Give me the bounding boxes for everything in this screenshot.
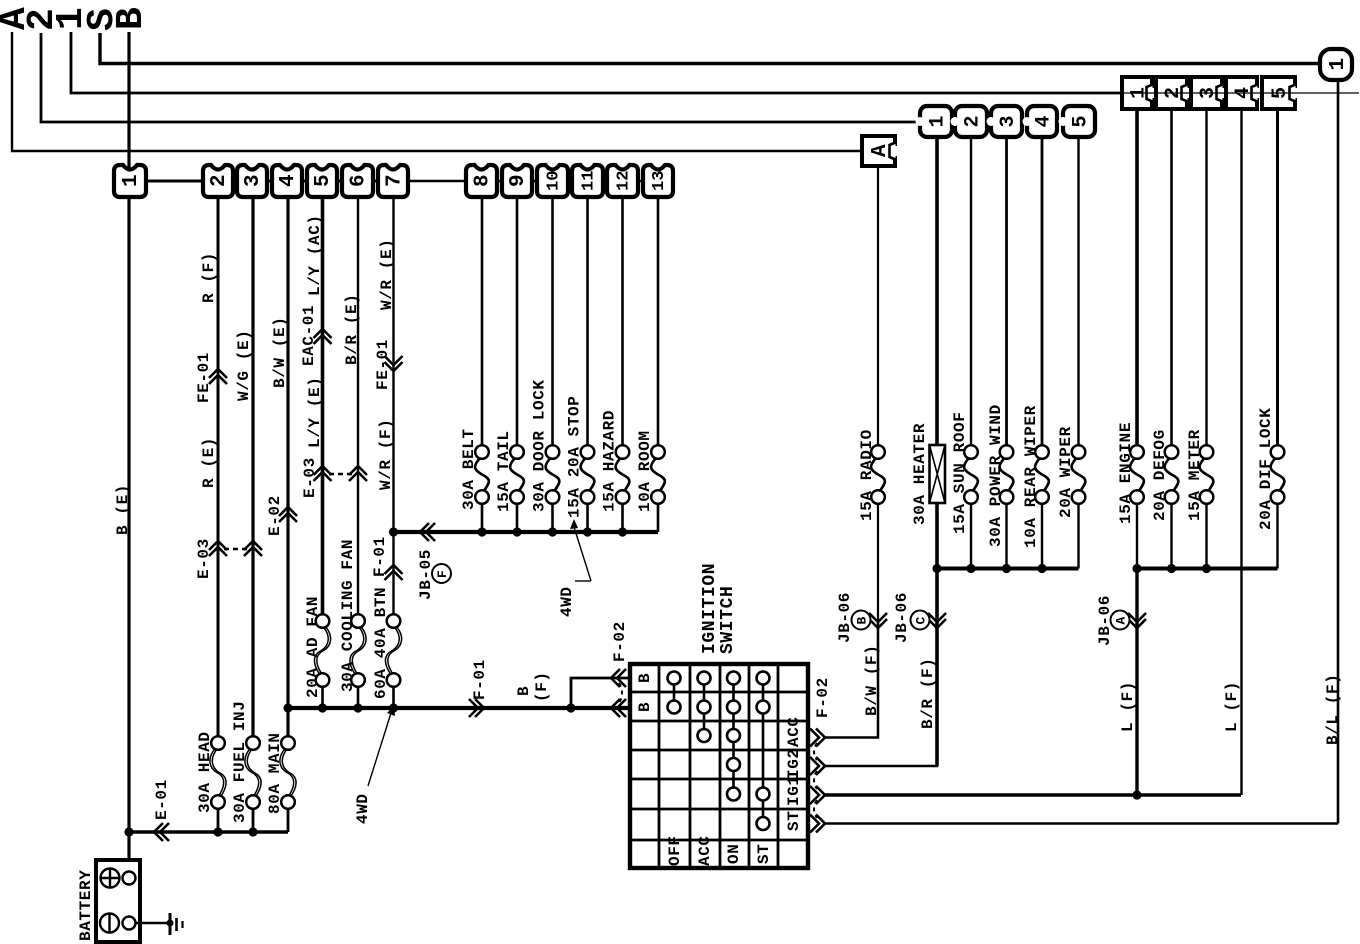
wire from pin 5 (L/Y) (321, 197, 325, 615)
fuse 10A REAR WIPER (1035, 457, 1049, 492)
wire from pin 6 (B/R) (357, 197, 359, 615)
svg-text:4WD: 4WD (354, 793, 372, 824)
svg-text:20A DIF LOCK: 20A DIF LOCK (1257, 408, 1275, 530)
wire from A to connector A (12, 32, 862, 151)
junction dots IG1 bus (1132, 564, 1141, 573)
wire stubs ENGINE group fuses to IG1 bus (1136, 503, 1138, 569)
wire link connector7-connector8 (408, 180, 466, 182)
connector JB-06 B chevron (869, 619, 887, 628)
wire METER feed (1205, 109, 1207, 446)
svg-text:B/R (F): B/R (F) (919, 658, 937, 729)
svg-text:2: 2 (1162, 87, 1185, 99)
svg-text:30A POWER WIND: 30A POWER WIND (987, 404, 1005, 547)
svg-text:A: A (1114, 617, 1129, 625)
svg-text:6: 6 (348, 174, 371, 187)
svg-text:30A HEATER: 30A HEATER (911, 423, 929, 525)
wire from pin 4 (B/W) (286, 197, 289, 737)
connector pin 3 (237, 165, 267, 197)
connector 1 round (top right) (1320, 49, 1352, 80)
svg-text:10: 10 (545, 171, 564, 191)
svg-text:1: 1 (927, 115, 950, 127)
connector pin 5 (307, 165, 337, 197)
wire stub FUEL INJ fuse to E-01 bus (252, 808, 255, 832)
junction dots IG2 bus (932, 564, 941, 573)
svg-text:B (E): B (E) (114, 484, 132, 535)
connector FE-01 down chevron on pin7 wire (385, 362, 403, 371)
wire from pin 3 (W/G) (251, 197, 254, 737)
svg-text:10A ROOM: 10A ROOM (636, 430, 654, 512)
fuse 15A METER (1200, 457, 1214, 492)
wire links between connectors 8-13 (497, 180, 643, 182)
svg-text:B: B (110, 7, 153, 30)
wire from pin 12 to HAZARD fuse (621, 197, 624, 446)
connector A (male) (862, 136, 895, 166)
connector JB-05 chevron (420, 523, 429, 541)
fuse 15A TAIL (510, 457, 524, 492)
connector E-01 chevron (154, 823, 163, 841)
connector F-02 right chevrons with dashed ties (816, 729, 825, 747)
svg-text:30A COOLING FAN: 30A COOLING FAN (339, 539, 357, 692)
svg-text:ST: ST (785, 811, 803, 831)
wire from S to connector 1 top right (100, 33, 1320, 64)
connector pin 2 (203, 165, 233, 197)
connector pin 6 (342, 165, 373, 197)
wire stub RADIO fuse down (877, 503, 879, 738)
svg-text:8: 8 (472, 174, 495, 187)
svg-text:10A REAR WIPER: 10A REAR WIPER (1022, 405, 1040, 548)
bus wire E-01 battery feed (129, 830, 288, 833)
wire from pin 8 to BELT fuse (481, 197, 484, 446)
wire battery negative to ground (136, 922, 170, 924)
svg-text:L (F): L (F) (1223, 681, 1241, 732)
wire B (E) from B down to connector 1 (127, 32, 130, 170)
wire HEATER feed (935, 137, 939, 445)
svg-text:4: 4 (277, 174, 300, 187)
svg-text:B/W (F): B/W (F) (863, 645, 881, 716)
connector pin 4 (272, 165, 302, 197)
svg-text:F-02: F-02 (814, 677, 832, 718)
wire ENGINE wire down to IG1 row (1135, 569, 1138, 796)
svg-text:E-03: E-03 (195, 538, 213, 579)
wire ENGINE feed (1135, 109, 1139, 446)
svg-text:IG2: IG2 (785, 748, 803, 779)
svg-text:IG1: IG1 (785, 775, 803, 806)
fuse 30A DOOR LOCK (546, 457, 560, 492)
fuse 80A MAIN (280, 748, 294, 797)
wire ACC row to RADIO wire (825, 620, 878, 738)
svg-text:R (F): R (F) (200, 252, 218, 303)
svg-text:ON: ON (725, 844, 743, 864)
wire stubs right fuses to IG2 bus (970, 503, 972, 569)
wire from pin 11 to STOP fuse (586, 197, 589, 446)
svg-text:3: 3 (997, 115, 1020, 127)
wire stubs BELT..ROOM fuses to bus (481, 503, 484, 532)
svg-text:JB-06: JB-06 (893, 592, 911, 643)
svg-text:JB-06: JB-06 (1096, 595, 1114, 646)
battery positive terminal (101, 869, 120, 888)
fuse 20A AD FAN (314, 626, 328, 675)
svg-text:R (E): R (E) (200, 437, 218, 488)
battery negative terminal (100, 914, 119, 933)
wire from pin 7 (W/R) (392, 197, 394, 615)
svg-text:B: B (636, 702, 654, 712)
svg-text:15A ENGINE: 15A ENGINE (1117, 422, 1135, 524)
fusible link 30A HEATER (930, 445, 946, 503)
svg-text:15A METER: 15A METER (1186, 429, 1204, 521)
svg-text:FE-01: FE-01 (374, 339, 392, 390)
fuse 20A WIPER (1072, 457, 1086, 492)
svg-text:5: 5 (312, 174, 335, 187)
connector pin 9 (502, 165, 532, 197)
wire DIF LOCK feed (1276, 109, 1279, 446)
connector E-03 second chevron pair (314, 466, 332, 475)
svg-text:B: B (855, 617, 870, 625)
fuse 30A COOLING FAN (350, 626, 364, 675)
fuse 15A/20A STOP (581, 457, 595, 492)
svg-text:W/G (E): W/G (E) (235, 330, 253, 401)
node JB-06 C circle (911, 611, 930, 630)
svg-text:20A DEFOG: 20A DEFOG (1151, 429, 1169, 521)
svg-text:W/R (F): W/R (F) (377, 419, 395, 490)
svg-text:1: 1 (1128, 87, 1151, 99)
connector pin 11 (572, 165, 603, 197)
svg-text:B: B (636, 673, 654, 683)
svg-text:11: 11 (580, 171, 599, 191)
wire IG2 row to HEATER wire (825, 620, 937, 766)
svg-text:15A 20A STOP: 15A 20A STOP (566, 396, 584, 518)
ignition switch table grid (630, 664, 808, 868)
svg-text:1: 1 (120, 174, 143, 187)
wire from pin 2 (R) (217, 197, 220, 737)
svg-text:IGNITION: IGNITION (700, 563, 720, 654)
wire B/L (F) vertical (1337, 80, 1340, 824)
junction dot IG1/ENGINE wire (1132, 790, 1141, 799)
fuse 20A DIF LOCK (1271, 457, 1285, 492)
svg-text:OFF: OFF (666, 835, 684, 866)
node JB-06 B circle (852, 611, 871, 630)
svg-text:4: 4 (1033, 115, 1056, 127)
wire POWER WIND feed (1005, 137, 1008, 446)
svg-text:30A FUEL INJ: 30A FUEL INJ (231, 701, 249, 823)
svg-text:E-01: E-01 (153, 779, 171, 820)
wire SUN ROOF feed (970, 137, 972, 446)
svg-text:ACC: ACC (696, 835, 714, 866)
svg-text:15A RADIO: 15A RADIO (858, 429, 876, 521)
connector F-01 chevron on pin7 wire (385, 565, 403, 574)
svg-text:C: C (914, 617, 929, 625)
svg-text:L/Y (E): L/Y (E) (306, 377, 324, 448)
connector F-02 left chevrons with dashed tie (611, 669, 620, 687)
svg-text:B: B (515, 686, 533, 696)
ignition switch contacts ST column (762, 678, 765, 824)
wire B (E) main vertical (127, 197, 130, 832)
wire links between connectors 2-7 (233, 180, 408, 183)
fuse 30A FUEL INJ (245, 748, 259, 797)
wire branch up to ignition switch row B (571, 678, 629, 708)
node JB-06 A circle (1111, 611, 1130, 630)
svg-text:BATTERY: BATTERY (77, 870, 95, 941)
svg-text:15A TAIL: 15A TAIL (495, 430, 513, 512)
svg-text:20A AD FAN: 20A AD FAN (304, 596, 322, 698)
ignition switch contacts ACC column (703, 678, 706, 736)
wire WIPER feed (1077, 137, 1079, 446)
svg-text:L (F): L (F) (1119, 681, 1137, 732)
connector E-03 chevron pair with dashed tie (209, 541, 227, 550)
ignition switch contacts ON column (732, 678, 735, 794)
svg-text:20A WIPER: 20A WIPER (1057, 426, 1075, 518)
fuse 30A POWER WIND (1000, 457, 1014, 492)
connector pin 12 (607, 165, 638, 197)
svg-text:60A 40A BTN: 60A 40A BTN (372, 587, 390, 699)
wire IG1 row (825, 793, 1241, 796)
fuse 20A DEFOG (1165, 457, 1179, 492)
connector JB-06 C chevron (928, 619, 946, 628)
svg-text:13: 13 (650, 171, 669, 191)
wire from 1 to male connector row (71, 32, 1122, 93)
svg-text:30A BELT: 30A BELT (460, 428, 478, 510)
svg-text:E-02: E-02 (266, 495, 284, 536)
svg-text:4WD: 4WD (558, 586, 576, 617)
svg-text:(F): (F) (533, 671, 551, 702)
connector row male pins 1-5 (1122, 77, 1152, 109)
svg-text:B/W (E): B/W (E) (271, 317, 289, 388)
svg-text:5: 5 (1269, 87, 1292, 99)
svg-text:7: 7 (384, 174, 407, 187)
svg-text:ST: ST (755, 844, 773, 864)
wire stubs AD FAN fuses to F-01 bus (321, 686, 324, 708)
wire stub HEAD fuse to E-01 bus (217, 808, 220, 832)
svg-text:B/L (F): B/L (F) (1324, 674, 1342, 745)
bus wire to BELT..ROOM fuse row (394, 530, 659, 534)
connector FE-01 chevron on pin2 wire (209, 369, 227, 378)
svg-text:JB-06: JB-06 (836, 592, 854, 643)
battery box (96, 860, 140, 942)
svg-text:3: 3 (242, 174, 265, 187)
fuse 15A RADIO (871, 457, 885, 492)
fuse 30A HEAD (210, 748, 224, 797)
svg-text:15A HAZARD: 15A HAZARD (601, 410, 619, 512)
svg-text:SWITCH: SWITCH (718, 586, 738, 654)
bus wire IG2 group (937, 567, 1079, 571)
svg-text:30A DOOR LOCK: 30A DOOR LOCK (531, 379, 549, 512)
svg-text:5: 5 (1070, 115, 1093, 127)
svg-text:2: 2 (962, 115, 985, 127)
wire REAR WIPER feed (1041, 137, 1044, 446)
bus wire IG1 group (1137, 567, 1278, 571)
wire from pin 10 to DOOR LOCK fuse (551, 197, 554, 446)
svg-text:F: F (435, 570, 450, 578)
fuse 30A BELT (475, 457, 489, 492)
fuse 10A ROOM (651, 457, 665, 492)
wire link connector1-connector2 (146, 180, 203, 183)
fuse 60A / 40A BTN (385, 626, 399, 675)
wire ST row (825, 822, 1338, 825)
svg-text:2: 2 (208, 174, 231, 187)
connector row female pins 1-5 (920, 106, 952, 137)
junction dots on F-01 bus (283, 703, 292, 712)
svg-text:4: 4 (1232, 87, 1255, 99)
fuse 15A ENGINE (1130, 457, 1144, 492)
ignition switch contacts OFF column (673, 678, 676, 707)
connector EAC-01 chevron (314, 329, 332, 338)
wire B (E) to battery (127, 832, 130, 871)
ground (169, 913, 172, 935)
fuse 15A HAZARD (616, 457, 630, 492)
wire connector A to RADIO fuse (877, 166, 879, 446)
connector pin 7 (378, 165, 408, 197)
connector E-02 chevron (279, 507, 297, 516)
svg-text:A: A (869, 144, 892, 157)
wire stub MAIN fuse to E-01 bus (287, 808, 290, 832)
svg-text:F-02: F-02 (611, 621, 629, 662)
wire DEFOG feed (1170, 109, 1173, 446)
wire from 2 to female connector row (41, 33, 1095, 122)
svg-text:15A SUN ROOF: 15A SUN ROOF (951, 412, 969, 534)
junction dots on E-01 bus (124, 827, 133, 836)
svg-text:9: 9 (507, 174, 530, 187)
connector F-01 chevron on bus (475, 699, 484, 717)
svg-text:1: 1 (1327, 58, 1350, 71)
svg-text:L/Y (AC): L/Y (AC) (306, 214, 324, 296)
svg-text:12: 12 (615, 171, 634, 191)
node JB-05 F circle (432, 564, 451, 583)
connector 1 pin 1 (left) (114, 165, 146, 197)
svg-text:3: 3 (1197, 87, 1220, 99)
wire HEATER below link (935, 503, 939, 766)
bus wire F-01 to ignition switch (288, 706, 630, 710)
wire pin4 direct to IG1 (1240, 109, 1242, 795)
fuse 15A SUN ROOF (964, 457, 978, 492)
wire from pin 9 to TAIL fuse (516, 197, 519, 446)
wire from pin 13 to ROOM fuse (657, 197, 660, 446)
svg-text:W/R (E): W/R (E) (378, 239, 396, 310)
centerline through male connector row (1122, 92, 1359, 94)
connector JB-06 A chevron (1128, 619, 1146, 628)
connector pin 10 (537, 165, 568, 197)
svg-text:80A MAIN: 80A MAIN (266, 732, 284, 814)
svg-text:ACC: ACC (785, 716, 803, 747)
svg-text:F-01: F-01 (471, 659, 489, 700)
svg-text:30A HEAD: 30A HEAD (196, 731, 214, 813)
connector pin 8 (466, 165, 497, 197)
connector pin 13 (643, 165, 673, 197)
svg-text:B/R (E): B/R (E) (343, 294, 361, 365)
junction dots on BELT..ROOM bus (389, 527, 398, 536)
